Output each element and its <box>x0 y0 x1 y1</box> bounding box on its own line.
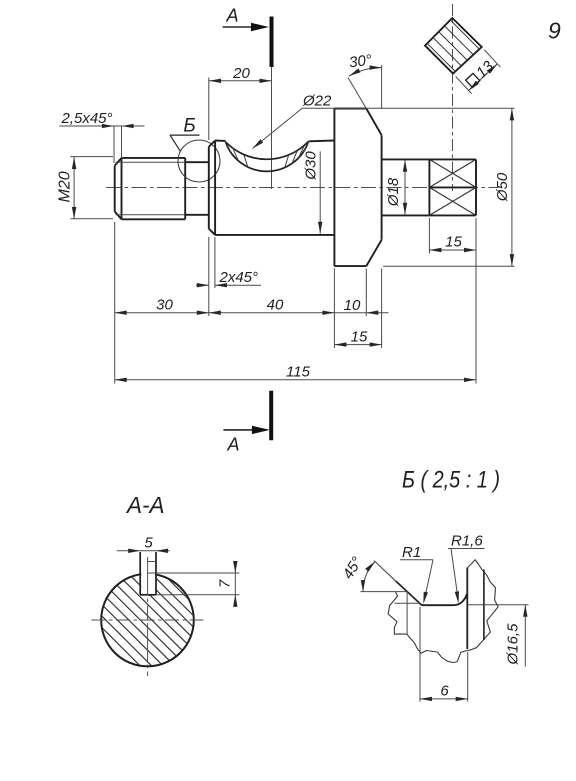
square end flat diagonals <box>429 159 476 215</box>
svg-text:2x45°: 2x45° <box>219 269 259 286</box>
svg-text:115: 115 <box>286 363 311 380</box>
dim 115 <box>115 379 476 381</box>
section centerlines <box>92 619 205 621</box>
svg-text:20: 20 <box>232 65 250 82</box>
dim D50 <box>383 108 515 266</box>
slot inner step tick <box>148 561 156 563</box>
ball-milled notch arcs <box>226 141 309 171</box>
svg-text:9: 9 <box>548 18 561 44</box>
notch surface ticks <box>225 141 309 168</box>
detail B thread face line <box>483 570 485 641</box>
dim D22 leader <box>253 108 515 149</box>
svg-text:15: 15 <box>445 234 462 251</box>
dim D18 <box>404 160 406 215</box>
detail B jagged break outline <box>388 560 498 663</box>
svg-text:30: 30 <box>156 297 173 314</box>
svg-text:Ø18: Ø18 <box>385 177 402 207</box>
dim 45deg detail <box>361 562 408 592</box>
svg-text:Ø30: Ø30 <box>303 151 320 181</box>
square end box <box>429 159 476 215</box>
svg-text:A-A: A-A <box>125 492 164 518</box>
dim D16,5 <box>467 605 528 667</box>
section A-A circle <box>85 496 215 741</box>
svg-text:15: 15 <box>351 328 368 345</box>
detail B far-side lines <box>394 592 419 635</box>
detail B groove right wall <box>466 568 468 650</box>
dim 5 keyway <box>117 550 170 552</box>
svg-text:6: 6 <box>440 682 449 699</box>
svg-text:5: 5 <box>144 534 153 551</box>
chained dims 30 40 10 <box>115 222 389 384</box>
neck groove outline <box>185 158 209 219</box>
detail B chamfer edge 45deg <box>396 581 420 603</box>
shaft D18 outline <box>382 159 476 215</box>
svg-text:Ø16,5: Ø16,5 <box>505 623 522 666</box>
svg-text:Ø50: Ø50 <box>494 172 511 202</box>
dim 30 deg chamfer <box>348 65 382 109</box>
svg-text:Ø22: Ø22 <box>302 93 332 110</box>
flange D50 outline <box>334 109 381 267</box>
keyway slot void <box>141 565 155 594</box>
dim 15 square end <box>429 218 476 384</box>
svg-text:Б ( 2,5 : 1 ): Б ( 2,5 : 1 ) <box>402 467 500 494</box>
svg-text:A: A <box>225 6 238 26</box>
keyway slot edges <box>140 552 156 595</box>
dim 2,5x45 <box>59 126 144 163</box>
centerline main axis <box>106 187 498 189</box>
dim D30 <box>319 151 321 233</box>
cylinder D30 outline <box>209 141 335 235</box>
svg-text:R1: R1 <box>402 544 421 561</box>
dim M20 arrows <box>72 157 76 169</box>
centerline square-end vertical <box>452 4 454 191</box>
section plane line through notch <box>271 67 273 189</box>
thread M20 outline <box>115 158 186 219</box>
dim 6 groove width <box>420 607 468 702</box>
section mark A bottom <box>269 391 273 441</box>
svg-text:A: A <box>226 435 239 455</box>
svg-text:2,5x45°: 2,5x45° <box>60 110 112 127</box>
rotated square end view (diamond) <box>415 0 495 111</box>
svg-text:30°: 30° <box>348 52 373 72</box>
thread minor diameter thin lines <box>116 162 186 215</box>
section hatching <box>85 496 215 741</box>
dim 2x45 <box>196 237 261 288</box>
svg-text:M20: M20 <box>57 171 74 202</box>
section mark A top <box>270 17 274 68</box>
svg-text:10: 10 <box>344 297 361 314</box>
dim M20 extension lines <box>70 157 113 219</box>
svg-text:7: 7 <box>217 579 234 588</box>
svg-text:Б: Б <box>183 115 195 136</box>
dim 7 keyway depth <box>148 561 239 607</box>
svg-text:R1,6: R1,6 <box>451 533 483 550</box>
svg-text:40: 40 <box>267 297 284 314</box>
dim 20 <box>209 78 272 141</box>
dim 15 flange <box>334 269 381 349</box>
detail B chamfer edge 45deg extension <box>374 561 397 582</box>
dimension square 13 <box>456 50 501 94</box>
detail circle B <box>178 140 220 182</box>
detail B groove bottom with fillets <box>420 594 467 605</box>
